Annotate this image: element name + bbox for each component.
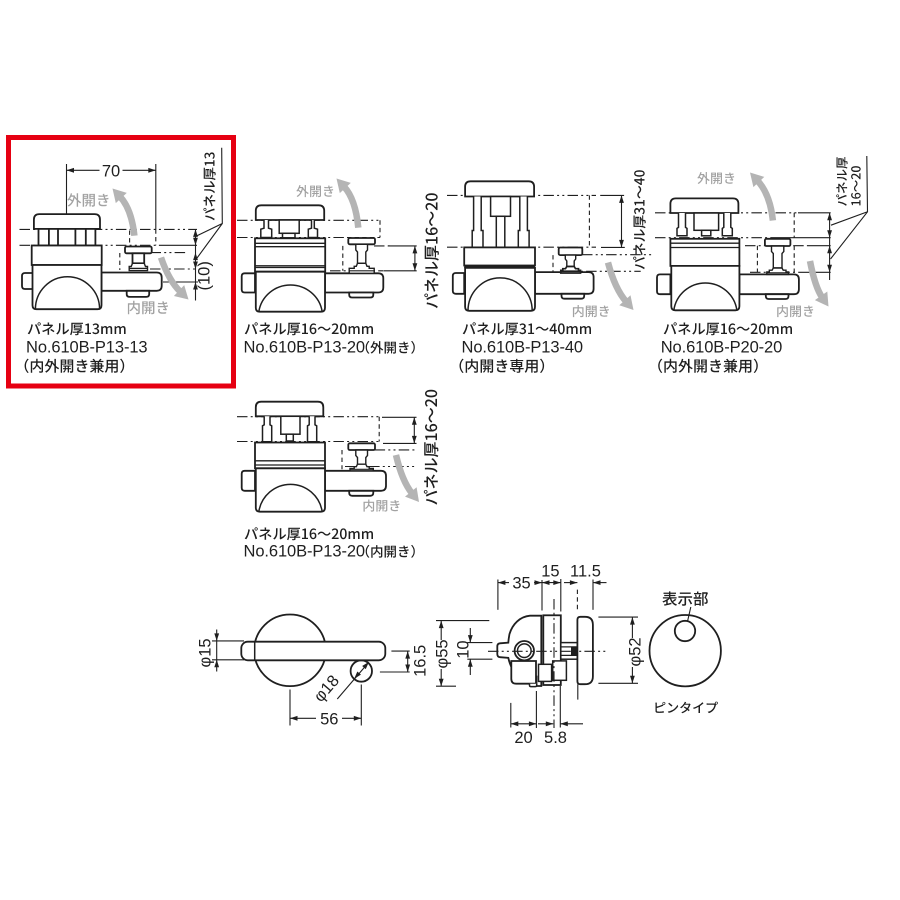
D1 bar foot	[127, 291, 150, 297]
D2 center block	[279, 220, 299, 233]
D2 left post	[261, 220, 272, 238]
svg-text:No.610B-P13-13: No.610B-P13-13	[26, 339, 148, 357]
φ15 dimension	[212, 640, 244, 642]
D3 screw ghost dashed	[552, 255, 554, 273]
D4 body block	[670, 239, 739, 266]
section horizontal centerline	[488, 650, 606, 652]
D1 inward-open gray arrow	[161, 258, 181, 292]
svg-text:35: 35	[512, 575, 530, 593]
D3 latch bar	[535, 272, 594, 294]
D4 label 外開き gray	[697, 172, 734, 184]
D1 right dimension line	[195, 229, 197, 300]
D1 outward-open gray arrow	[120, 197, 134, 236]
D3 panel bottom centerline	[447, 246, 596, 248]
D2 screw ghost dashed	[342, 246, 344, 271]
svg-text:20: 20	[514, 729, 532, 747]
D3 left leg	[472, 197, 483, 248]
D4 label パネル厚 (rotated, line 1)	[836, 157, 847, 206]
D1 label 外開き gray	[67, 193, 108, 207]
D2 knob cap	[256, 205, 324, 220]
D4 outward-open gray arrow	[758, 181, 773, 221]
D4 latch bar	[739, 274, 799, 294]
section pivot rings	[515, 641, 534, 660]
svg-text:11.5: 11.5	[570, 563, 601, 581]
svg-text:φ52: φ52	[627, 637, 645, 666]
D1 upper body block	[32, 246, 102, 266]
D2 label 外開き gray	[296, 185, 333, 197]
label ピンタイプ	[655, 702, 718, 714]
D1 panel top centerline	[20, 228, 198, 230]
D5 body block	[255, 443, 325, 469]
D1 dimension 70	[67, 169, 100, 171]
D2 lower body with dome	[256, 272, 325, 312]
section vertical centerline (panel axis)	[553, 599, 555, 728]
D1 panel thickness arrows (set A)	[193, 229, 198, 237]
D2 screw knob cap	[348, 238, 375, 244]
D2 body block	[255, 238, 325, 271]
svg-text:70: 70	[102, 162, 120, 180]
D1 latch bar	[102, 273, 162, 291]
D2 screw cap centerline	[374, 245, 390, 247]
D4 inward-open gray arrow	[810, 261, 822, 298]
svg-text:15: 15	[541, 563, 559, 581]
D3 inward-open gray arrow	[608, 263, 626, 302]
D2 knob ghost dashed	[379, 220, 381, 237]
D5 latch bar	[325, 471, 386, 491]
D5 center block	[281, 416, 300, 434]
D1 screw ghost dashed line	[119, 253, 121, 270]
D2 outward-open gray arrow	[344, 187, 358, 228]
D5 thickness dimension arrows	[413, 417, 415, 443]
16.5 dimension	[391, 650, 409, 652]
D2 latch bar	[325, 273, 383, 292]
D4 leader lines to panel thickness label	[831, 156, 868, 259]
D1 rotated knob ghost (dashed)	[129, 231, 131, 246]
D3 center block	[491, 197, 511, 217]
D2 panel bottom centerline	[237, 237, 347, 239]
D4 knob cap	[670, 198, 738, 213]
D1 panel bottom centerline	[20, 244, 161, 246]
disc left edge extension	[577, 684, 579, 699]
D2 caption line 1	[245, 322, 373, 335]
section knob profile	[497, 616, 541, 686]
svg-text:φ55: φ55	[434, 639, 452, 668]
D5 bar foot	[349, 491, 373, 496]
D3 bar foot	[562, 294, 585, 299]
D2 washer centerline	[330, 270, 383, 272]
label 表示部	[662, 591, 708, 605]
D4 panel top centerline	[655, 212, 798, 214]
face view indicator pin circle	[675, 621, 695, 641]
D3 body block	[464, 247, 535, 265]
D4 left post	[677, 213, 687, 236]
D1 caption line 1	[28, 322, 126, 335]
D1 screw side panel centerline	[151, 252, 187, 254]
svg-text:(10): (10)	[196, 261, 214, 290]
D1 screw stem and washer	[133, 253, 145, 263]
svg-text:No.610B-P13-20: No.610B-P13-20	[244, 339, 366, 357]
D1 knob ribs	[39, 229, 96, 246]
D5 screw stem and washer	[356, 450, 368, 464]
svg-text:16.5: 16.5	[412, 645, 430, 677]
D4 right post	[722, 213, 732, 236]
D3 label 内開き gray	[573, 305, 609, 317]
D5 panel top centerline	[237, 416, 380, 418]
D3 right leg	[518, 197, 529, 248]
D3 caption line 3	[460, 359, 545, 373]
D2 thickness extension lines	[388, 245, 417, 247]
D4 screw ghost dashed	[756, 246, 758, 273]
D1 lower body with dome	[33, 265, 102, 309]
D1 label 内開き gray	[128, 301, 168, 314]
D3 left tab	[453, 273, 464, 294]
svg-text:No.610B-P20-20: No.610B-P20-20	[661, 339, 783, 357]
dimension 11.5	[576, 590, 578, 611]
D5 left post	[263, 416, 272, 441]
表示部 leader line	[688, 607, 691, 622]
D3 washer centerline	[562, 270, 641, 272]
dimension 15	[560, 579, 562, 612]
svg-text:No.610B-P13-20: No.610B-P13-20	[244, 543, 366, 561]
D1 knob cap	[34, 214, 100, 229]
D3 panel top centerline	[447, 194, 596, 196]
D5 screw ghost dashed	[341, 450, 343, 469]
D3 label パネル厚31〜40 (rotated)	[633, 170, 646, 269]
D4 panel bottom centerline	[655, 237, 772, 239]
D4 center block	[694, 213, 719, 230]
D5 screw cap centerline	[375, 449, 417, 451]
dimension 20	[510, 703, 512, 728]
D4 dimension line with two arrow sets	[829, 213, 831, 280]
dimension 5.8	[559, 686, 561, 728]
front view knob circle	[254, 615, 326, 687]
D5 label パネル厚16〜20 (rotated)	[424, 390, 439, 505]
D4 caption line 1	[664, 322, 792, 335]
D4 screw knob cap	[765, 239, 791, 246]
D4 label 内開き gray	[777, 305, 813, 317]
D4 knob ghost dashed	[793, 213, 795, 238]
D5 right post	[308, 416, 317, 441]
D4 lower body with dome	[671, 266, 739, 310]
D5 inward-open gray arrow	[396, 455, 412, 494]
D2 thickness dimension arrows	[414, 246, 416, 271]
D5 lower body with dome	[256, 468, 325, 511]
D1 screw side arrows (set B)	[193, 253, 198, 261]
front view pin circle φ18	[351, 660, 372, 681]
D4 screw cap centerline	[745, 245, 808, 247]
D3 thickness dimension arrows	[621, 195, 623, 247]
section disc (φ52 base)	[577, 617, 593, 684]
D1 screw knob cap	[125, 247, 152, 254]
D4 label 16〜20 (rotated, line 2)	[851, 166, 861, 205]
front view handle bar	[241, 642, 385, 661]
D1 dimension 70 extension lines	[66, 164, 68, 214]
D1 latch bar reference line	[163, 281, 198, 283]
D3 caption line 1	[463, 322, 591, 335]
D1 caption line 3	[25, 359, 125, 373]
dimension φ52	[598, 616, 638, 618]
dimension φ55	[436, 620, 489, 622]
D4 washer centerline	[750, 271, 808, 273]
D2 left tab	[242, 273, 255, 292]
D5 knob cap	[256, 402, 323, 417]
svg-text:10: 10	[454, 640, 472, 658]
section mounting column	[543, 615, 561, 685]
face view circle	[650, 615, 721, 686]
D4 bar foot	[766, 294, 789, 299]
D3 screw stem and washer	[565, 255, 575, 266]
D2 screw stem and washer	[356, 244, 368, 263]
D5 screw knob cap	[348, 443, 375, 450]
D3 screw cap centerline	[582, 254, 653, 256]
D5 caption line 1	[245, 527, 373, 540]
D3 screw knob cap	[559, 248, 583, 256]
D5 panel bottom centerline	[237, 441, 379, 443]
D1 (10) arrow (set C)	[193, 282, 198, 290]
D1 screw side lower centerline	[150, 268, 198, 270]
svg-text:5.8: 5.8	[544, 729, 567, 747]
D5 left tab	[242, 471, 255, 491]
D5 washer centerline	[345, 466, 417, 468]
dimension 10	[467, 642, 492, 644]
D3 knob cap	[465, 181, 534, 196]
D4 caption line 3	[658, 359, 758, 373]
section lock nut	[539, 664, 552, 681]
dimension 35	[497, 580, 499, 610]
D3 thickness extension lines	[600, 194, 624, 196]
56 dimension	[289, 690, 291, 726]
D4 screw stem and washer	[772, 246, 784, 268]
svg-text:No.610B-P13-40: No.610B-P13-40	[462, 339, 584, 357]
red highlight box around selected model No.610B-P13-13	[9, 138, 234, 387]
D2 bar foot	[349, 293, 373, 298]
D5 knob ghost dashed	[378, 417, 380, 442]
D2 panel top centerline	[237, 219, 380, 221]
D1 label パネル厚13 (rotated)	[203, 152, 215, 220]
D4 left tab	[657, 274, 670, 294]
section lower block	[511, 661, 536, 684]
D5 label 内開き gray	[364, 500, 400, 512]
svg-text:56: 56	[320, 710, 338, 728]
section screw stem	[561, 643, 578, 660]
φ18 diagonal dimension	[337, 664, 367, 700]
svg-text:φ15: φ15	[197, 638, 215, 667]
D1 left tab	[22, 273, 33, 289]
D2 label パネル厚16〜20 (rotated)	[424, 193, 439, 308]
D3 knob ghost dashed	[588, 195, 590, 247]
D3 lower body with dome	[465, 268, 535, 311]
D2 right post	[308, 220, 317, 238]
D1 leader lines to panel thickness label	[197, 148, 223, 259]
